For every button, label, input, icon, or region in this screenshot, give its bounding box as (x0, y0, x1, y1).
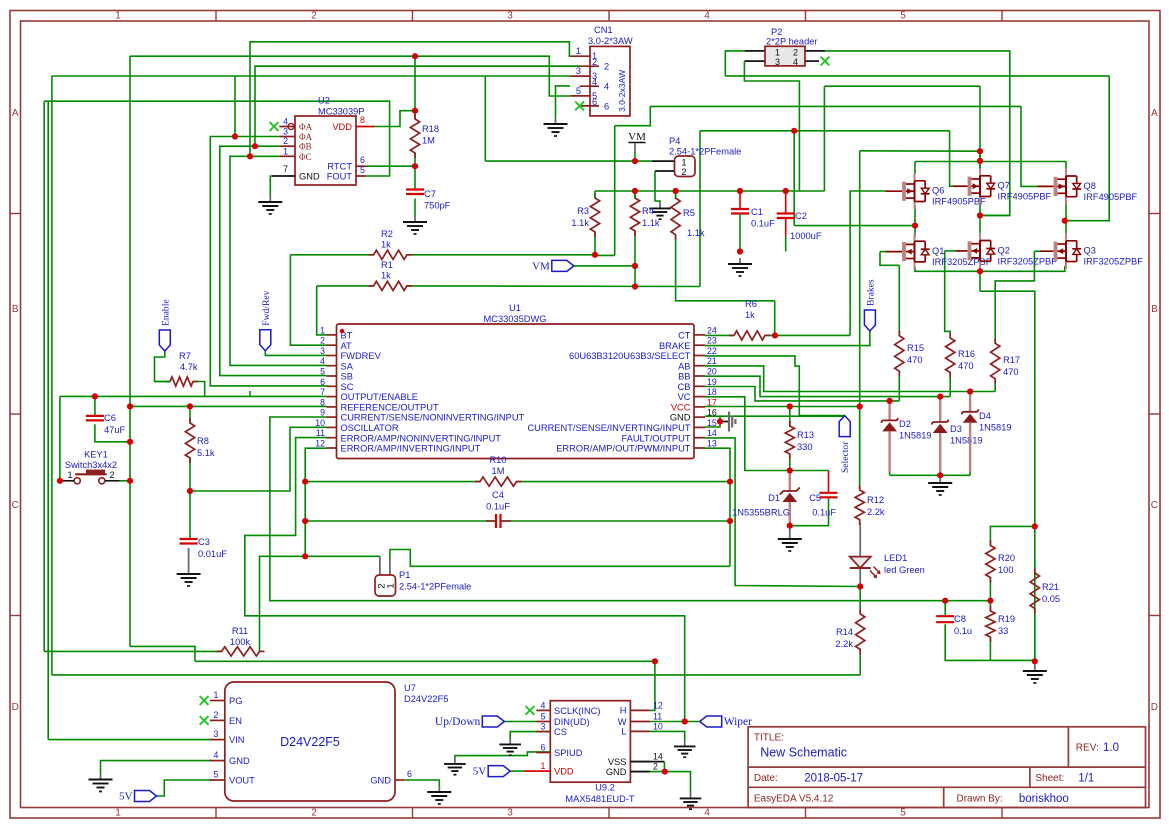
resistor R12 2.2k (855, 485, 864, 525)
wire enable stub (155, 351, 171, 382)
ground under C1 (739, 258, 741, 264)
svg-text:3: 3 (320, 346, 325, 356)
op-amp U9.2 MAX5481EUD-T (550, 701, 630, 783)
svg-text:330: 330 (797, 442, 813, 452)
svg-text:1.0: 1.0 (1103, 742, 1119, 754)
connector P4 2.54-1*2PFemale (675, 156, 696, 177)
svg-text:R15: R15 (907, 343, 924, 353)
wire net PhiA top (52, 75, 571, 77)
wire FAULT drop (705, 438, 860, 587)
svg-text:OSCILLATOR: OSCILLATOR (341, 423, 399, 433)
svg-text:R18: R18 (422, 124, 439, 134)
svg-text:P4: P4 (669, 136, 680, 146)
svg-text:B: B (1151, 304, 1158, 315)
capacitor C8 0.1u (936, 615, 954, 617)
svg-text:Q1: Q1 (932, 246, 944, 256)
svg-text:5: 5 (360, 165, 365, 175)
svg-text:0.1uF: 0.1uF (486, 502, 510, 512)
wire C7 top stub (414, 166, 416, 189)
wire selector line (720, 415, 845, 417)
ground U9 GND (690, 793, 692, 798)
svg-text:4: 4 (793, 57, 798, 67)
svg-text:470: 470 (907, 355, 923, 365)
wire C3 stub (189, 491, 191, 539)
wire VDD elbow (374, 111, 415, 127)
wire R7 right (193, 382, 205, 397)
wire net phaseA (794, 225, 915, 227)
svg-text:VOUT: VOUT (229, 776, 255, 786)
ground U7 pin6 (438, 786, 440, 792)
svg-text:6: 6 (407, 769, 412, 779)
wire R11 right riser (260, 556, 306, 651)
svg-text:1: 1 (67, 470, 72, 480)
svg-text:1.1k: 1.1k (687, 228, 705, 238)
svg-text:15: 15 (707, 418, 717, 428)
wire D1 bottom (789, 522, 791, 526)
net flag Wiper (700, 716, 722, 727)
wire L gnd (650, 731, 685, 741)
svg-text:EasyEDA V5.4.12: EasyEDA V5.4.12 (754, 794, 834, 805)
resistor R3 1.1k (590, 193, 599, 237)
wire net y151 vcc rail (860, 150, 980, 152)
svg-text:Drawn By:: Drawn By: (957, 794, 1003, 805)
capacitor C6 47uF (86, 415, 104, 417)
op-amp U7 D24V22F5 (225, 682, 395, 801)
svg-text:5: 5 (900, 808, 906, 819)
svg-text:19: 19 (707, 377, 717, 387)
svg-text:C: C (1151, 500, 1158, 511)
svg-text:C: C (12, 500, 19, 511)
svg-text:Enable: Enable (160, 299, 171, 326)
wire PhiC to SC (230, 156, 327, 365)
svg-text:2: 2 (592, 57, 597, 67)
svg-text:4: 4 (704, 11, 710, 22)
wire pin16 gnd black (720, 421, 729, 423)
ground sideways U1 pin16 (728, 412, 730, 432)
svg-text:Date:: Date: (754, 773, 778, 784)
wire R8 bottom (189, 458, 191, 491)
svg-text:2: 2 (311, 11, 317, 22)
svg-text:R8: R8 (197, 436, 209, 446)
wire riser VDD to L2 (414, 56, 416, 110)
wire CN1 pin2 lead (255, 65, 580, 67)
svg-text:CURRENT/SENSE/NONINVERTING/INP: CURRENT/SENSE/NONINVERTING/INPUT (341, 413, 525, 423)
wire left drop B (47, 101, 49, 739)
wire 5V to VOUT (157, 780, 213, 796)
wire Q8 top (1065, 162, 1067, 171)
wire R19 top stub (989, 601, 991, 611)
ground under C3 (188, 568, 190, 574)
svg-text:IRF4905PBF: IRF4905PBF (1084, 192, 1138, 202)
wire gnd stub bottomright (1034, 661, 1036, 665)
wire U7 gnd4 (101, 761, 213, 774)
wire D2 bottom (889, 471, 891, 475)
svg-text:R14: R14 (836, 627, 853, 637)
diode D2 1N5819 (888, 401, 890, 421)
wire riser x860 vcc (859, 151, 861, 489)
svg-text:3: 3 (214, 729, 219, 739)
svg-text:U2: U2 (318, 96, 330, 106)
diode D1 1N5355BRLG zener (789, 472, 791, 491)
svg-text:FOUT: FOUT (327, 172, 353, 182)
wire AB line (705, 366, 995, 392)
wire LED to R14 (859, 587, 861, 600)
net flag Enable (159, 330, 170, 351)
svg-text:1: 1 (576, 46, 581, 56)
svg-text:R20: R20 (998, 553, 1015, 563)
svg-text:D3: D3 (950, 424, 962, 434)
svg-text:4: 4 (604, 82, 609, 92)
wire P1 pin2 stub (379, 556, 381, 575)
svg-text:GND: GND (299, 172, 320, 182)
wire top rail (915, 161, 1066, 163)
wire riser y191 to y86 (823, 86, 825, 191)
connector P1 2.54-1*2PFemale (375, 575, 396, 596)
wire net y76 long (725, 75, 1109, 77)
svg-text:1N5819: 1N5819 (899, 431, 932, 441)
wire P2 pin2 black (805, 50, 825, 52)
wire R5 bottom (676, 235, 775, 301)
svg-text:1: 1 (681, 158, 686, 168)
svg-text:1/1: 1/1 (1078, 773, 1094, 785)
svg-text:0.1u: 0.1u (954, 626, 972, 636)
svg-text:AT: AT (341, 341, 353, 351)
wire pin11 path (245, 438, 685, 722)
svg-text:1: 1 (214, 690, 219, 700)
net flag Selector (839, 416, 850, 437)
wire x130 drop (129, 56, 131, 646)
svg-text:SB: SB (341, 372, 353, 382)
svg-text:7: 7 (320, 387, 325, 397)
wire pin13 drop (705, 448, 730, 481)
wire R3 bottom net (595, 232, 615, 255)
svg-text:VM: VM (532, 260, 550, 272)
wire VSS jog (630, 761, 664, 763)
wire R16 riser (945, 251, 951, 338)
svg-text:5V: 5V (473, 766, 487, 778)
wire pin7 line (60, 395, 327, 397)
svg-text:SCLK(INC): SCLK(INC) (554, 706, 601, 716)
wire left drop A (43, 101, 45, 651)
svg-text:3: 3 (507, 808, 513, 819)
wire P4 pin2 gnd (655, 171, 660, 203)
wire riser R5line to CT (774, 301, 776, 336)
wire net y661 long (195, 660, 655, 662)
svg-text:MC33035DWG: MC33035DWG (483, 314, 546, 324)
svg-text:14: 14 (707, 428, 717, 438)
svg-text:ΦC: ΦC (299, 152, 312, 162)
svg-text:2: 2 (109, 470, 114, 480)
svg-text:100k: 100k (230, 637, 251, 647)
capacitor C1 0.1uF (731, 208, 749, 210)
svg-text:C6: C6 (104, 413, 116, 423)
wire net y675 long (52, 674, 860, 676)
svg-text:L: L (621, 727, 626, 737)
wire R17 riser (995, 251, 1034, 343)
wire net FOUT L6 (44, 101, 389, 176)
svg-text:2: 2 (604, 62, 609, 72)
wire CB line (705, 387, 899, 401)
resistor R20 100 (986, 541, 995, 583)
junction dots (232, 133, 238, 139)
no-connect X U7 EN (200, 716, 209, 725)
resistor R14 2.2k (856, 609, 865, 655)
ground U2 pin7 (270, 176, 272, 196)
svg-text:KEY1: KEY1 (84, 450, 108, 460)
wire riser x1109 to Q8 source (1066, 76, 1109, 221)
svg-text:1: 1 (283, 146, 288, 156)
wire Q6 gate feed (850, 191, 886, 335)
wire R2 to AT (290, 255, 326, 345)
svg-text:GND: GND (670, 413, 691, 423)
wire pin7 stublet (249, 391, 251, 396)
svg-text:P1: P1 (399, 570, 410, 580)
wire R19 bottom (989, 637, 991, 660)
svg-text:10: 10 (315, 418, 325, 428)
capacitor C5 0.1uF (820, 492, 838, 494)
svg-text:17: 17 (707, 397, 717, 407)
wire Q7 bot to Q2 (979, 201, 981, 237)
wire riser pin12H (650, 661, 655, 710)
no-connect X P2 pin4 (821, 57, 830, 66)
svg-text:CT: CT (678, 331, 691, 341)
wire P1 pin2 line (305, 555, 380, 557)
svg-text:New Schematic: New Schematic (760, 746, 847, 760)
resistor R7 4.7k (165, 377, 198, 386)
wire Q6 top (914, 162, 916, 175)
wire P2 pin3 path (744, 61, 799, 191)
svg-text:10: 10 (653, 721, 663, 731)
wire net R3R4R5 pullup y191 (595, 190, 824, 192)
svg-text:2.54-1*2PFemale: 2.54-1*2PFemale (669, 147, 741, 157)
resistor R13 330 (785, 421, 794, 459)
svg-text:D4: D4 (979, 411, 991, 421)
ground under CN1 (555, 118, 557, 124)
wire R13 top stub (789, 407, 791, 427)
diode D4 1N5819 (969, 392, 971, 412)
svg-text:6: 6 (541, 743, 546, 753)
wire C6 top stub (94, 396, 96, 415)
transistor Q8 IRF4905PBF (1054, 177, 1058, 196)
svg-text:BRAKE: BRAKE (659, 341, 691, 351)
svg-text:R7: R7 (179, 351, 191, 361)
wire bottom gnd link (990, 659, 1034, 661)
svg-text:R5: R5 (683, 208, 695, 218)
wire P2 pin1 black (745, 50, 765, 52)
svg-text:1N5355BRLG: 1N5355BRLG (732, 508, 790, 518)
resistor R4 1.1k (630, 193, 639, 236)
wire net PhiB top (255, 66, 580, 146)
resistor R18 1M (410, 114, 419, 158)
wire R14 bottom (859, 649, 861, 675)
wire net y106 (650, 105, 1021, 107)
wire pin8 line (130, 405, 327, 407)
svg-text:21: 21 (707, 356, 717, 366)
svg-text:3.0-2*3AW: 3.0-2*3AW (588, 36, 633, 46)
svg-text:2: 2 (653, 762, 658, 772)
wire C8 top stub (944, 601, 946, 616)
wire phaseB tap (980, 214, 1010, 216)
svg-text:D2: D2 (899, 419, 911, 429)
no-connect X U9 SCLK (526, 706, 535, 715)
wire D4 bottom (969, 471, 971, 475)
svg-text:18: 18 (707, 387, 717, 397)
wire C7 gnd stub (414, 199, 416, 217)
svg-text:1: 1 (541, 761, 546, 771)
svg-text:VIN: VIN (229, 735, 245, 745)
svg-text:H: H (620, 706, 627, 716)
svg-text:4: 4 (704, 808, 710, 819)
wire R15 riser (898, 265, 900, 335)
svg-text:16: 16 (707, 408, 717, 418)
wire P4 pin2 black (655, 170, 675, 172)
wire riser x615 (614, 126, 616, 256)
wire R20 branch (990, 526, 1034, 545)
wire BB line (705, 376, 950, 396)
ground bottom right (1034, 665, 1036, 671)
svg-text:REFERENCE/OUTPUT: REFERENCE/OUTPUT (341, 402, 439, 412)
wire R13 bottom (789, 454, 791, 471)
svg-text:5: 5 (541, 712, 546, 722)
ground D1 C5 (789, 533, 791, 539)
net flag 5V bottom left (135, 791, 157, 802)
svg-text:20: 20 (707, 367, 717, 377)
svg-text:2: 2 (283, 136, 288, 146)
wire VCC line (705, 406, 860, 408)
wire pin16 loop (705, 416, 720, 421)
wire C5 top stub (828, 471, 830, 493)
svg-text:3: 3 (775, 57, 780, 67)
resistor R6 1k (729, 331, 770, 340)
wire R18 top stub (414, 111, 416, 119)
svg-text:750pF: 750pF (424, 201, 451, 211)
wire R4 bottom (634, 231, 636, 287)
capacitor C2 1000uF (777, 212, 795, 214)
wire net PhiC top (250, 42, 570, 157)
svg-text:2: 2 (320, 336, 325, 346)
svg-text:A: A (12, 108, 19, 119)
svg-text:CS: CS (554, 727, 567, 737)
wire R10 line west (305, 481, 480, 483)
wire SELECT line (705, 356, 845, 416)
wire source rail (915, 266, 1065, 271)
svg-text:2: 2 (681, 167, 686, 177)
svg-text:GND: GND (606, 767, 627, 777)
wire riser y106 to Q8 gate (1021, 106, 1037, 186)
wire P2 pin3 black (744, 60, 765, 62)
wire riser PhiA to U2 pin3 (234, 76, 236, 137)
svg-text:Fwd/Rev: Fwd/Rev (261, 290, 272, 325)
connector P2 2*2P header (765, 46, 805, 66)
svg-text:24: 24 (707, 325, 717, 335)
resistor R17 470 (991, 338, 1000, 384)
capacitor C3 0.01uF (180, 538, 198, 540)
wire x730 span (729, 482, 731, 567)
ground U9 L (684, 741, 686, 746)
svg-text:Switch3x4x2: Switch3x4x2 (65, 460, 117, 470)
svg-text:VM: VM (628, 131, 646, 143)
svg-text:2.2k: 2.2k (835, 639, 853, 649)
net flag VM (552, 260, 574, 271)
resistor R1 1k (369, 281, 412, 290)
wire riser x980 (979, 86, 981, 174)
svg-text:7: 7 (283, 164, 288, 174)
wire D3 bottom (939, 471, 941, 475)
wire fwdrev stub (265, 351, 326, 356)
wire D1 gnd stub (789, 526, 791, 533)
svg-text:5: 5 (214, 770, 219, 780)
resistor R11 100k (217, 647, 265, 656)
svg-text:Selector: Selector (840, 441, 851, 473)
svg-text:REV:: REV: (1076, 743, 1099, 754)
svg-text:14: 14 (653, 752, 663, 762)
wire R6 east (765, 334, 850, 336)
svg-text:1k: 1k (381, 271, 391, 281)
wire Q6 bot to Q1 (914, 205, 916, 237)
net flag Up/Down (482, 716, 504, 727)
svg-text:3: 3 (283, 127, 288, 137)
svg-text:PG: PG (229, 696, 242, 706)
svg-text:11: 11 (316, 428, 325, 438)
svg-text:1N5819: 1N5819 (979, 423, 1012, 433)
svg-text:1000uF: 1000uF (790, 231, 822, 241)
wire R1 east (407, 285, 700, 288)
svg-text:4: 4 (592, 77, 597, 87)
svg-text:boriskhoo: boriskhoo (1019, 793, 1069, 805)
wire VM flag line (574, 265, 635, 267)
svg-text:U1: U1 (509, 303, 521, 313)
ground P4 pin2 (659, 203, 661, 208)
wire R20 bottom (989, 578, 991, 601)
wire P2 pin1 west (725, 51, 745, 76)
resistor R2 1k (369, 250, 412, 259)
svg-text:1M: 1M (422, 136, 435, 146)
resistor R8 5.1k (185, 418, 194, 463)
svg-text:6: 6 (592, 97, 597, 107)
wire C4 line east (501, 520, 730, 522)
svg-text:MAX5481EUD-T: MAX5481EUD-T (565, 794, 635, 804)
svg-text:5: 5 (900, 11, 906, 22)
svg-text:1: 1 (386, 583, 397, 588)
svg-text:CURRENT/SENSE/INVERTING/INPUT: CURRENT/SENSE/INVERTING/INPUT (527, 423, 690, 433)
wire rail stub x980 (979, 267, 981, 291)
svg-text:R2: R2 (381, 229, 393, 239)
LED LED1 led Green (850, 557, 871, 568)
wire SPIUD gnd (455, 752, 550, 759)
net flag 5V U9 (488, 766, 510, 777)
svg-text:C4: C4 (492, 490, 504, 500)
wire VM label stub (634, 144, 636, 153)
wire R12 top (859, 407, 861, 489)
ground U9 SPIUD (454, 759, 456, 764)
wire C5 bottom (790, 497, 829, 525)
svg-text:IRF4905PBF: IRF4905PBF (932, 197, 986, 207)
svg-text:VC: VC (678, 392, 691, 402)
svg-text:4: 4 (320, 356, 325, 366)
wire Q2 gate (945, 250, 956, 252)
svg-text:ΦA: ΦA (299, 132, 313, 142)
svg-text:3: 3 (576, 66, 581, 76)
wire P2 pin4 black stub (805, 60, 819, 62)
resistor R10 1M (475, 477, 522, 486)
wire net y131 (700, 130, 950, 132)
svg-text:3: 3 (507, 11, 513, 22)
svg-text:8: 8 (360, 115, 365, 125)
svg-text:CB: CB (678, 382, 691, 392)
transistor Q1 IRF3205ZPBF (902, 242, 906, 261)
wire R18 bottom (414, 153, 416, 166)
svg-text:1: 1 (115, 808, 121, 819)
